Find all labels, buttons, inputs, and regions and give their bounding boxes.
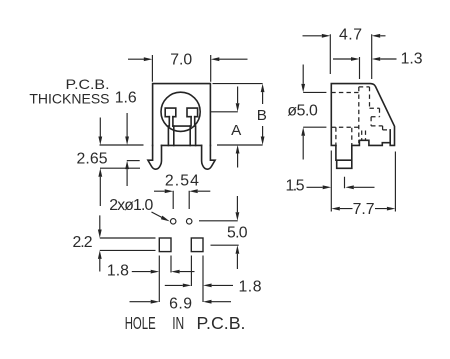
label 1.8 left bbox=[107, 263, 129, 280]
label 1.6 bbox=[115, 90, 137, 107]
front view lens circle bbox=[161, 92, 200, 131]
side view lead stub edge bbox=[389, 130, 391, 143]
arrowhead 1.6 bottom bbox=[125, 161, 129, 170]
dimension 6.9 lines bbox=[130, 301, 232, 303]
arrowhead 1.8L left bbox=[151, 270, 160, 274]
hidden foot edges inside body bbox=[336, 127, 352, 145]
dimension 7.7 lines bbox=[331, 151, 395, 212]
label 2.65 bbox=[77, 151, 108, 168]
svg-text:IN: IN bbox=[172, 313, 184, 333]
arrowhead 2.54 right bbox=[189, 189, 198, 193]
arrowhead 7.7 right bbox=[387, 207, 396, 211]
label A bbox=[231, 122, 242, 139]
label 4.7 bbox=[339, 27, 362, 44]
hidden lead channel in notch bbox=[362, 131, 366, 141]
arrowhead 1.8L right bbox=[171, 270, 180, 274]
dimension 1.8 right lines bbox=[165, 256, 233, 303]
side view snap foot bbox=[336, 145, 352, 168]
arrowhead 4.7 right bbox=[372, 34, 381, 38]
arrowhead 6.9 right bbox=[203, 300, 212, 304]
arrowhead 2.65 bottom bbox=[98, 168, 102, 177]
svg-text:1.3: 1.3 bbox=[401, 51, 423, 68]
svg-text:1.8: 1.8 bbox=[239, 278, 262, 295]
svg-text:7.0: 7.0 bbox=[170, 52, 192, 69]
arrowhead A bottom bbox=[236, 145, 240, 154]
LED package bridge line bbox=[173, 125, 190, 127]
side view outline bbox=[331, 84, 394, 146]
dimension 1.5 lines bbox=[307, 177, 375, 188]
label 1.8 right bbox=[239, 278, 262, 295]
label 5.0 bbox=[227, 225, 248, 242]
hidden lens bottom line bbox=[331, 126, 359, 128]
svg-text:1.5: 1.5 bbox=[286, 178, 305, 195]
arrowhead dia5.0 top bbox=[301, 84, 305, 93]
arrowhead 1.5 right bbox=[345, 185, 354, 189]
arrowhead dia5.0 bottom bbox=[301, 127, 305, 136]
arrowhead 5.0 top bbox=[236, 212, 240, 221]
arrowhead 1.5 left bbox=[323, 185, 332, 189]
svg-text:2.2: 2.2 bbox=[73, 234, 93, 251]
arrowhead 4.7 left bbox=[322, 34, 331, 38]
PCB hole left lead hole bbox=[170, 219, 176, 225]
arrowhead 1.3 right bbox=[372, 57, 381, 61]
arrowhead 2.2 bottom bbox=[98, 250, 102, 259]
dimension 5.0 holes lines bbox=[199, 196, 239, 269]
label dia 5.0 bbox=[287, 103, 318, 120]
arrowhead 7.7 left bbox=[331, 207, 340, 211]
hidden lead bend top bbox=[359, 87, 370, 108]
arrowhead B top bbox=[261, 84, 265, 93]
dimension 7.0 lines bbox=[128, 55, 248, 82]
PCB square hole right bbox=[191, 238, 203, 252]
svg-text:B: B bbox=[257, 107, 267, 124]
svg-text:2.54: 2.54 bbox=[165, 173, 199, 190]
label B bbox=[257, 107, 267, 124]
arrowhead 5.0 bottom bbox=[236, 245, 240, 254]
svg-text:2.65: 2.65 bbox=[77, 151, 108, 168]
label 1.5 bbox=[286, 178, 305, 195]
arrowhead 2.2 top bbox=[98, 230, 102, 239]
LED lead right T-pad bbox=[187, 108, 198, 145]
dimension 2.54 lines bbox=[154, 191, 210, 209]
front left snap leg bbox=[148, 145, 162, 169]
arrowhead leader 1.0 bbox=[161, 216, 170, 222]
label 2.54 bbox=[165, 173, 199, 190]
hidden lead bend steps bbox=[370, 108, 391, 130]
leader 2x dia 1.0 bbox=[152, 212, 163, 218]
label P.C.B. bbox=[66, 76, 110, 92]
svg-text:1.8: 1.8 bbox=[107, 263, 129, 280]
label 2.2 bbox=[73, 234, 93, 251]
label 7.7 bbox=[353, 201, 375, 218]
dimension 1.3 lines bbox=[333, 57, 397, 79]
dimension A B reference lines bbox=[211, 84, 263, 168]
front view body bbox=[153, 84, 211, 146]
label HOLE IN P.C.B. bbox=[125, 313, 246, 333]
svg-text:5.0: 5.0 bbox=[227, 225, 248, 242]
label THICKNESS bbox=[29, 91, 109, 107]
svg-text:ø5.0: ø5.0 bbox=[287, 103, 318, 120]
arrowhead 1.8R right bbox=[203, 284, 212, 288]
svg-text:4.7: 4.7 bbox=[339, 27, 362, 44]
arrowhead 1.3 left bbox=[351, 57, 360, 61]
dimension dia 5.0 lines bbox=[303, 65, 326, 160]
PCB hole right lead hole bbox=[186, 219, 192, 225]
label 2x dia 1.0 bbox=[109, 197, 153, 214]
svg-text:7.7: 7.7 bbox=[353, 201, 375, 218]
svg-text:THICKNESS: THICKNESS bbox=[29, 91, 109, 107]
label 1.3 bbox=[401, 51, 423, 68]
svg-text:1.6: 1.6 bbox=[115, 90, 137, 107]
arrowhead 7.0 left bbox=[144, 57, 153, 61]
label 7.0 bbox=[170, 52, 192, 69]
arrowhead 2.54 left bbox=[165, 189, 174, 193]
LED lead left T-pad bbox=[165, 108, 176, 145]
arrowhead A top bbox=[236, 103, 240, 112]
hidden internal vertical edge bbox=[358, 87, 360, 143]
dimension 2.2 lines bbox=[100, 215, 156, 271]
svg-text:P.C.B.: P.C.B. bbox=[66, 76, 110, 92]
dimension 1.8 left lines bbox=[132, 256, 195, 303]
hidden lens top line bbox=[331, 92, 359, 94]
arrowhead 7.0 right bbox=[211, 57, 220, 61]
dimension 1.6 and 2.65 reference lines bbox=[100, 113, 144, 206]
svg-text:A: A bbox=[231, 122, 242, 139]
label 6.9 bbox=[169, 296, 192, 313]
arrowhead 1.6 top bbox=[125, 137, 129, 146]
dimension 4.7 lines bbox=[303, 34, 386, 79]
arrowhead 2.65 top bbox=[98, 137, 102, 146]
svg-text:2xø1.0: 2xø1.0 bbox=[109, 197, 153, 214]
front right snap leg bbox=[202, 145, 216, 169]
arrowhead 1.8R left bbox=[183, 284, 192, 288]
PCB square hole left bbox=[159, 238, 171, 252]
svg-text:6.9: 6.9 bbox=[169, 296, 192, 313]
svg-text:P.C.B.: P.C.B. bbox=[197, 313, 246, 333]
svg-text:HOLE: HOLE bbox=[125, 313, 156, 333]
arrowhead B bottom bbox=[261, 137, 265, 146]
arrowhead 6.9 left bbox=[151, 300, 160, 304]
